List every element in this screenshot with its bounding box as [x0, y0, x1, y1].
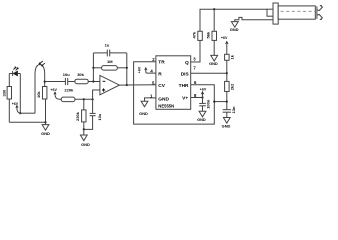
resistor R (Q top left) 47k — [198, 31, 203, 40]
wire GND pin1 — [145, 98, 156, 101]
node junction — [44, 121, 46, 123]
ground GND (earphone sleeve) — [230, 17, 273, 31]
svg-text:1M: 1M — [107, 59, 113, 64]
svg-text:GND: GND — [197, 117, 206, 122]
photodiode (bullet package) — [35, 65, 45, 114]
node junction — [83, 128, 85, 130]
supply +6V (V+) — [200, 87, 207, 97]
svg-text:100n: 100n — [205, 99, 210, 109]
ground GND (divider) — [209, 40, 218, 65]
resistor 1k (timing) — [225, 54, 230, 60]
svg-text:R: R — [158, 71, 162, 77]
supply +6V (timing chain) — [221, 36, 229, 54]
wire signal to coupling cap — [45, 81, 66, 83]
ground GND (bias) — [80, 129, 90, 147]
svg-text:+6V: +6V — [50, 88, 57, 92]
wire sensor bottom — [20, 112, 35, 114]
node junction — [226, 72, 228, 74]
wire LED left leg — [8, 74, 10, 87]
svg-text:1k: 1k — [229, 54, 234, 59]
supply +6V (reset pin4) — [138, 66, 156, 73]
svg-text:56k: 56k — [206, 31, 211, 38]
resistor 220k (bias bottom) — [83, 99, 85, 110]
svg-text:220k: 220k — [75, 111, 80, 121]
feedback network risers — [92, 53, 94, 82]
wire bottom ground rail — [9, 121, 45, 123]
light arrows into photodiode — [39, 61, 45, 66]
wire Q output up — [191, 40, 200, 62]
resistor 1M (feedback) — [93, 59, 126, 70]
svg-text:GND: GND — [209, 61, 218, 66]
svg-text:GND: GND — [139, 111, 148, 116]
resistor R (divider) 56k — [213, 9, 215, 31]
wire THR node — [214, 101, 227, 103]
wire — [68, 81, 75, 83]
svg-text:47k: 47k — [191, 31, 196, 38]
svg-text:GND: GND — [41, 131, 50, 136]
node junction — [126, 67, 128, 69]
555 timer U2 NE555N — [156, 56, 191, 110]
svg-text:Q: Q — [185, 60, 189, 66]
wire V+ pin8 — [191, 97, 203, 99]
wire bias node — [75, 98, 93, 100]
wire opamp output — [119, 84, 155, 86]
svg-text:GND: GND — [81, 142, 90, 147]
svg-text:330: 330 — [1, 89, 6, 96]
wire to opamp plus — [93, 90, 100, 99]
supply +6V (LED) — [12, 102, 21, 113]
earphone (crystal earpiece) — [267, 3, 322, 24]
svg-text:DIS: DIS — [181, 71, 190, 77]
supply +6V (bias) — [50, 88, 58, 99]
svg-text:GND: GND — [158, 97, 169, 103]
node junction — [92, 67, 94, 69]
node junction (sensor out) — [44, 81, 46, 83]
resistor R 10k — [43, 87, 47, 100]
node junction — [226, 101, 228, 103]
node junction — [201, 96, 203, 98]
capacitor 10u (coupling) — [63, 72, 70, 85]
node junction — [213, 101, 215, 103]
svg-text:+6V: +6V — [138, 66, 142, 73]
wire 10k bottom lead — [45, 99, 47, 122]
svg-text:CV: CV — [158, 83, 165, 89]
svg-text:10k: 10k — [36, 91, 41, 98]
svg-text:NE555N: NE555N — [158, 104, 174, 109]
svg-text:10u: 10u — [63, 72, 70, 77]
ground GND (pin1) — [139, 101, 148, 116]
wire to DIS pin7 — [226, 60, 228, 73]
resistor R 330 — [7, 87, 11, 100]
capacitor 10u (bias bypass) — [92, 99, 94, 113]
svg-text:GND: GND — [230, 27, 239, 32]
svg-text:10u: 10u — [97, 113, 102, 120]
op-amp U1 — [100, 75, 120, 94]
svg-text:13n: 13n — [231, 106, 236, 113]
wire 330 to bottom — [8, 99, 10, 122]
node junction — [92, 80, 94, 82]
wire LED right leg — [19, 74, 21, 114]
capacitor 1u (feedback) — [93, 43, 126, 57]
ground GND (decoupling) — [197, 111, 206, 122]
svg-text:V+: V+ — [182, 96, 188, 102]
node junction — [213, 8, 215, 10]
svg-text:THR: THR — [179, 83, 189, 89]
svg-text:1u: 1u — [105, 43, 110, 48]
svg-text:2k2: 2k2 — [229, 83, 234, 90]
svg-text:220k: 220k — [64, 87, 74, 92]
resistor 2k2 (timing) — [226, 73, 228, 81]
wire TR loop (pin2 to pin6 node) — [134, 62, 215, 124]
wire to opamp minus — [88, 81, 100, 83]
svg-text:+6V: +6V — [221, 36, 228, 40]
node junction — [83, 98, 85, 100]
wire top rail — [200, 9, 267, 31]
node junction — [126, 84, 128, 86]
ground GND (timing cap) — [222, 118, 231, 129]
node junction — [92, 98, 94, 100]
capacitor 13n (timing) — [223, 102, 236, 118]
LED D1 (IR emitter) — [9, 71, 20, 76]
svg-text:+6V: +6V — [12, 102, 19, 106]
resistor 220k (bias top) — [59, 98, 61, 100]
svg-text:+6V: +6V — [200, 87, 207, 91]
capacitor 100n (decoupling) — [199, 98, 210, 112]
resistor 30k — [75, 79, 88, 84]
LED emission arrows — [13, 67, 18, 70]
ground GND (sensor) — [41, 122, 50, 136]
node junction — [19, 112, 21, 114]
svg-text:30k: 30k — [77, 72, 84, 77]
svg-text:TR: TR — [158, 60, 165, 66]
svg-text:GND: GND — [222, 123, 231, 128]
